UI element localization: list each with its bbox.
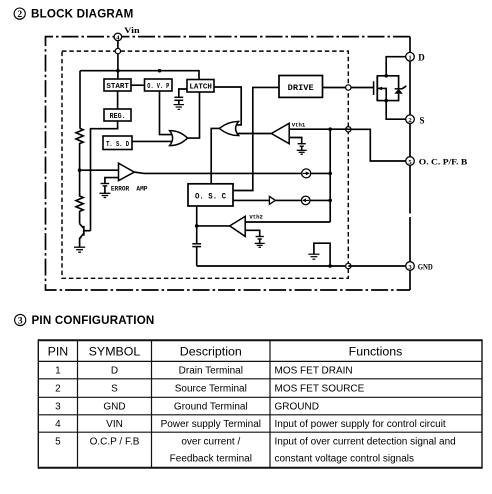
wire Vin pin to internal rail (117, 41, 119, 79)
ground (bias chain) (74, 247, 85, 252)
svg-text:GROUND: GROUND (275, 402, 319, 413)
svg-text:3: 3 (18, 316, 23, 326)
svg-text:Power supply Terminal: Power supply Terminal (161, 419, 261, 430)
wire START to REG (117, 91, 119, 109)
svg-text:PIN CONFIGURATION: PIN CONFIGURATION (32, 314, 155, 327)
svg-text:O.C.P / F.B: O.C.P / F.B (90, 437, 140, 448)
svg-text:REG.: REG. (110, 113, 126, 121)
current source CS2 (arrow left) (301, 196, 310, 205)
ground (Vth2 ref) (245, 230, 265, 247)
svg-text:SYMBOL: SYMBOL (89, 344, 141, 358)
buffer triangle (O.S.C output) (269, 196, 275, 204)
circled 3 title marker (15, 314, 26, 326)
wire T.S.D output to gate A (132, 140, 173, 142)
capacitor C1 with ground (beside LATCH) (174, 89, 187, 109)
svg-text:D: D (111, 366, 118, 377)
BLOCK DIAGRAM heading (31, 8, 133, 21)
table symbol column (90, 366, 140, 448)
pin 2 S (406, 115, 425, 125)
svg-text:Feedback terminal: Feedback terminal (170, 454, 252, 465)
current source CS1 (arrow right) (302, 169, 311, 178)
wire Vth1 output to gate B (237, 133, 271, 135)
wire ground rail (197, 265, 349, 267)
svg-text:O. S. C: O. S. C (195, 192, 226, 202)
wire bus corner to Vth2 + input (245, 221, 330, 223)
svg-text:3: 3 (55, 402, 61, 413)
wire LATCH output to gate B (214, 87, 241, 125)
svg-text:1: 1 (55, 366, 61, 377)
resistor R2 (76, 170, 83, 224)
wire gate A output up to LATCH (188, 92, 200, 138)
svg-text:2: 2 (17, 10, 22, 20)
svg-text:Input of power supply for cont: Input of power supply for control circui… (275, 419, 446, 430)
svg-text:Input of over current detectio: Input of over current detection signal a… (275, 437, 456, 448)
svg-text:PIN: PIN (48, 344, 69, 358)
pin 1 D (406, 52, 426, 62)
node junction gnd rail (328, 264, 332, 268)
node open circle on boundary (feedback) (346, 127, 351, 132)
PIN CONFIGURATION heading (32, 314, 155, 327)
svg-text:DRIVE: DRIVE (288, 83, 314, 93)
svg-text:4: 4 (55, 419, 61, 430)
wire feedback node to pin 5 (330, 129, 405, 161)
wire source to pin 2 (386, 101, 405, 120)
node open circle on boundary (gnd) (346, 263, 351, 268)
svg-text:START: START (106, 83, 129, 91)
svg-text:D: D (418, 53, 425, 63)
pin 3 GND (406, 262, 433, 272)
table header row (48, 344, 403, 358)
block START (104, 79, 131, 91)
svg-text:LATCH: LATCH (189, 84, 212, 92)
svg-text:S: S (111, 384, 118, 395)
wire left bias chain (top) (79, 71, 81, 129)
svg-text:Description: Description (180, 344, 242, 358)
wire drain to pin 1 (386, 57, 405, 76)
transistor M1 (MOSFET) (374, 75, 387, 101)
control IC boundary (dashed box) (62, 51, 348, 278)
wire gate B output down to O.S.C (211, 128, 219, 183)
node junction OVP/top rail (158, 69, 162, 73)
node junction R1/error amp feed (78, 168, 82, 172)
block T.S.D (103, 136, 132, 150)
package outline (chain line) (46, 37, 411, 290)
svg-text:T. S. D: T. S. D (106, 141, 129, 149)
pin 4 Vin (114, 25, 140, 42)
wire OVP through-line down to gate A (160, 91, 173, 135)
wire error amp + input feed (80, 169, 119, 171)
circled 2 title marker (14, 8, 25, 20)
svg-text:O. C. P/F. B: O. C. P/F. B (419, 158, 468, 167)
table pin number column (55, 366, 61, 448)
node junction Vth1/feedback (328, 127, 332, 131)
node junction Vin/top rail (116, 69, 120, 73)
svg-text:2: 2 (55, 384, 61, 395)
wire Vth1 + input to node (289, 128, 330, 130)
wire gate C feed / O.S.C out to DRIVE (233, 87, 279, 190)
node junction drain/diode (384, 74, 388, 78)
capacitor C2 (O.S.C timing) (192, 206, 201, 266)
svg-text:Vin: Vin (124, 25, 140, 35)
or-gate A (170, 131, 188, 146)
comparator Vth1 (271, 123, 289, 143)
svg-text:Ground Terminal: Ground Terminal (174, 402, 248, 413)
svg-text:GND: GND (418, 263, 433, 272)
or-gate B (left facing) (219, 121, 238, 135)
pin 5 O.C.P/F.B (406, 157, 468, 167)
svg-text:1: 1 (408, 55, 411, 62)
svg-text:S: S (420, 115, 425, 125)
node open circle on boundary (gate drive) (346, 85, 351, 90)
wire DRIVE output to MOSFET gate (323, 87, 374, 89)
TABLE (38, 339, 482, 469)
block O.S.C (188, 184, 233, 206)
wire O.S.C lower output (233, 199, 330, 201)
svg-text:O. V. P: O. V. P (147, 83, 169, 91)
block REG. (104, 109, 131, 121)
wire internal top rail (80, 71, 199, 80)
wire feedback vertical bus (329, 129, 331, 222)
node junction CS2/bus (328, 199, 332, 203)
op-amp ERROR AMP (119, 163, 135, 180)
resistor R1 (76, 128, 83, 170)
wire error amp output rail (134, 172, 330, 173)
block LATCH (187, 80, 214, 93)
svg-text:VIN: VIN (106, 419, 123, 430)
svg-text:GND: GND (103, 402, 125, 413)
wire Vth2 output to O.S.C cap node (197, 225, 230, 227)
node junction error rail/bus (328, 172, 332, 176)
node open circle on boundary (Vin) (115, 48, 120, 53)
table description column (161, 366, 261, 465)
node junction Vth2/cap (195, 224, 199, 228)
ground (error amp input) (99, 178, 118, 198)
svg-text:Vth1: Vth1 (292, 121, 306, 128)
block DRIVE (279, 76, 323, 98)
block O.V.P (145, 79, 173, 91)
svg-text:Functions: Functions (349, 344, 403, 358)
svg-text:Source Terminal: Source Terminal (175, 384, 247, 395)
ground hook (chip ground) (308, 243, 330, 266)
svg-text:ERROR AMP: ERROR AMP (111, 185, 148, 192)
wire gnd node to pin 3 (348, 265, 405, 267)
svg-text:MOS FET SOURCE: MOS FET SOURCE (275, 384, 365, 395)
ground (Vth1 ref) (289, 138, 307, 155)
transistor Q1 (79, 224, 91, 247)
table grid (38, 339, 482, 469)
node junction source/diode (384, 99, 388, 103)
svg-text:Drain Terminal: Drain Terminal (179, 366, 243, 377)
svg-text:5: 5 (55, 437, 61, 448)
wire REG to Q1 base (91, 121, 118, 231)
comparator Vth2 (230, 216, 246, 236)
svg-text:MOS FET DRAIN: MOS FET DRAIN (275, 366, 353, 377)
svg-text:Vth2: Vth2 (249, 214, 263, 221)
svg-text:constant voltage control signa: constant voltage control signals (275, 454, 415, 465)
table functions column (275, 366, 456, 465)
diode D1 (body diode) (386, 76, 406, 101)
svg-text:BLOCK DIAGRAM: BLOCK DIAGRAM (31, 8, 133, 21)
svg-text:over current /: over current / (181, 437, 240, 448)
wire START to O.V.P (131, 84, 145, 86)
